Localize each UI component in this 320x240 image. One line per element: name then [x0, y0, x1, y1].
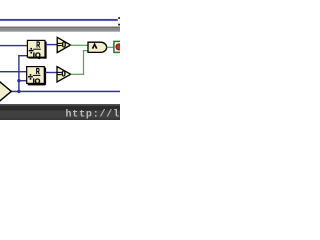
- AND gate: [88, 42, 107, 52]
- comparator equal-zero 2: [57, 67, 71, 82]
- quotient-remainder box2: [27, 66, 46, 86]
- svg-text:IQ: IQ: [33, 51, 41, 60]
- wire comparator2 to AND (green, up and over): [71, 74, 84, 75]
- divide glyph: [28, 76, 33, 77]
- boolean indicator terminal: [114, 41, 123, 52]
- watermark bar: [0, 104, 120, 121]
- background: [0, 0, 120, 120]
- wire top horizontal bus: [0, 19, 118, 21]
- wire vertical feed line: [18, 55, 19, 92]
- node stub lower right: [118, 24, 120, 26]
- AND wedge symbol: [93, 44, 97, 48]
- wire box2 output: [45, 72, 57, 73]
- wire box1 bottom input: [18, 55, 28, 56]
- red LED: [116, 44, 122, 50]
- wire comparator1 to AND (green): [70, 45, 88, 46]
- wire box2 top input: [0, 71, 27, 72]
- svg-text:=0: =0: [57, 70, 66, 79]
- comparator equal-zero 1: [57, 37, 70, 52]
- wire AND output (green): [107, 47, 115, 48]
- svg-text:R: R: [36, 40, 40, 50]
- wire box2 bottom input: [18, 80, 27, 81]
- wire bottom bus: [10, 91, 120, 93]
- fraction bar: [33, 49, 41, 50]
- node stub upper right: [118, 17, 120, 19]
- node junction dot upper: [17, 79, 20, 82]
- svg-text:R: R: [36, 66, 40, 76]
- node junction dot lower: [17, 90, 20, 93]
- converter triangle: [0, 77, 11, 106]
- gray structure bar: [0, 27, 120, 32]
- wire box1 output: [46, 44, 58, 45]
- fraction bar: [33, 75, 41, 76]
- svg-text:IQ: IQ: [33, 77, 41, 86]
- wire box1 top input: [0, 45, 28, 46]
- divide glyph: [29, 50, 34, 51]
- svg-text:=0: =0: [57, 40, 66, 49]
- quotient-remainder box1: [27, 40, 46, 60]
- svg-text:http://l: http://l: [66, 109, 120, 120]
